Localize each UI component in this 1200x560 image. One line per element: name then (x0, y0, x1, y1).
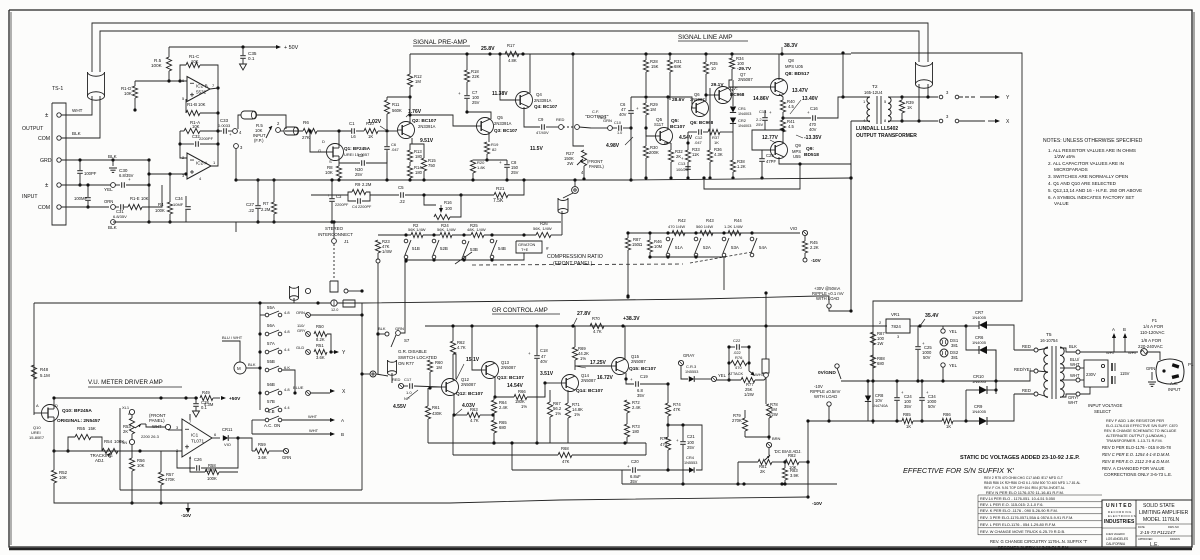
svg-text:RED: RED (1022, 344, 1031, 349)
svg-text:29.1V: 29.1V (711, 82, 724, 88)
svg-text:3.6K: 3.6K (258, 455, 267, 460)
resistor R69 (572, 347, 577, 360)
svg-text:4. Q1 AND Q10 ARE SELECTED: 4. Q1 AND Q10 ARE SELECTED (1048, 181, 1117, 186)
cap C30 (115, 184, 120, 186)
svg-text:1.0: 1.0 (406, 390, 412, 395)
svg-text:4.5: 4.5 (788, 124, 794, 129)
svg-text:BLK: BLK (378, 326, 386, 331)
svg-text:1N4003: 1N4003 (738, 124, 751, 128)
svg-text:6. A SYMBOL INDICATES FACTOR: 6. A SYMBOL INDICATES FACTORY SET (1048, 195, 1134, 200)
svg-text:1.8K: 1.8K (477, 165, 486, 170)
svg-text:3.51V: 3.51V (540, 371, 554, 377)
svg-text:REV 2 R75 470 OHM CHG C17: REV 2 R75 470 OHM CHG C17 AND /E17 MFD G… (984, 476, 1063, 480)
resistor R18 (464, 70, 469, 82)
svg-text:R58: R58 (208, 463, 216, 468)
svg-text:R17: R17 (507, 43, 515, 48)
svg-text:1N5553: 1N5553 (684, 461, 697, 465)
svg-text:1K: 1K (907, 105, 912, 110)
wire R23 down (377, 253, 379, 374)
cap C6 (628, 110, 634, 112)
svg-text:CR4: CR4 (686, 455, 695, 460)
svg-text:1N4005: 1N4005 (972, 379, 987, 384)
svg-text:27.8V: 27.8V (577, 311, 591, 317)
svg-text:Q8: BD517: Q8: BD517 (785, 71, 810, 77)
switch S1B (404, 233, 407, 236)
wire V10 (752, 232, 800, 234)
svg-text:DWG NO: DWG NO (1168, 525, 1179, 529)
svg-text:+: + (229, 132, 232, 137)
svg-text:U N I T E D: U N I T E D (1106, 503, 1132, 509)
svg-text:1.0: 1.0 (617, 131, 622, 135)
release pot R78 (762, 359, 769, 373)
svg-text:C26: C26 (194, 457, 202, 462)
svg-text:U55: U55 (793, 154, 801, 159)
svg-text:10: 10 (711, 66, 716, 71)
svg-text:VALUE: VALUE (1054, 201, 1069, 206)
resistor R1-B (186, 98, 187, 100)
resistor R5 100K (166, 57, 171, 71)
svg-text:Q14: BC107: Q14: BC107 (576, 388, 603, 394)
svg-text:REV. K PER ELO -1176 - 090: REV. K PER ELO -1176 - 090 5-26-90 R.F.M… (980, 508, 1058, 513)
svg-text:EFFECTIVE FOR S/N SUFFIX 'K: EFFECTIVE FOR S/N SUFFIX 'K' (903, 466, 1014, 475)
svg-text:MODEL 1176LN: MODEL 1176LN (1143, 517, 1180, 523)
resistor R1-A (184, 128, 200, 133)
svg-text:40V: 40V (619, 112, 627, 117)
svg-text:54B: 54B (498, 246, 506, 251)
svg-text:A: A (1112, 327, 1115, 332)
svg-text:DATE: DATE (1138, 525, 1145, 529)
switch S4A (750, 231, 753, 234)
svg-text:BRN: BRN (772, 436, 781, 441)
svg-text:MICROFARADS: MICROFARADS (1054, 167, 1088, 172)
svg-text:10K: 10K (59, 475, 67, 480)
svg-text:5.B: 5.B (268, 409, 275, 414)
svg-text:(F.P.): (F.P.) (254, 138, 264, 143)
svg-text:WHT: WHT (1128, 350, 1138, 355)
svg-text:R48: R48 (40, 367, 49, 372)
cap C33 (218, 130, 222, 132)
svg-text:10K: 10K (325, 170, 333, 175)
svg-text:R68: R68 (561, 446, 569, 451)
svg-text:GR CONTROL AMP: GR CONTROL AMP (492, 307, 548, 314)
svg-text:16.72V: 16.72V (597, 375, 614, 381)
connector box (343, 300, 355, 307)
resistor R4 (168, 172, 171, 175)
svg-text:12.0: 12.0 (331, 308, 338, 312)
gr rail 38V (425, 325, 887, 327)
resistor R26 (536, 232, 551, 237)
wire +50V rail (169, 46, 276, 48)
svg-text:ATTACK: ATTACK (728, 371, 744, 376)
svg-text:OUTPUT TRANSFORMER: OUTPUT TRANSFORMER (856, 133, 917, 139)
resistor R82 (785, 459, 799, 464)
svg-text:REV. W CHANGE MOVE TRUCK: REV. W CHANGE MOVE TRUCK 6-25-79 R.D.B. (980, 529, 1065, 534)
pad T (331, 300, 337, 306)
svg-text:270K: 270K (732, 418, 742, 423)
cap C12 R37 (698, 129, 700, 135)
svg-text:Q15: BC107: Q15: BC107 (629, 366, 656, 372)
svg-text:APPROVED: APPROVED (1138, 537, 1153, 541)
svg-text:47K: 47K (562, 459, 570, 464)
svg-text:0V/GND: 0V/GND (818, 370, 836, 376)
svg-text:11.5V: 11.5V (530, 146, 543, 152)
resistor R30 200K (643, 146, 648, 158)
wire output terminals (61, 114, 92, 116)
wire gr to sidechain (646, 430, 683, 455)
svg-text:GRN: GRN (395, 326, 404, 331)
svg-text:11K: 11K (692, 152, 699, 157)
svg-text:ORN: ORN (296, 310, 305, 315)
svg-text:C2: C2 (358, 153, 364, 158)
cap C6b (386, 131, 388, 145)
svg-text:GRN: GRN (603, 118, 612, 123)
cap C13 (685, 166, 691, 168)
svg-text:PANEL): PANEL) (149, 418, 165, 423)
svg-text:E L E C T R O N I C S: E L E C T R O N I C S (1108, 514, 1136, 518)
transistor Q7 (715, 87, 732, 104)
transistor Q5b (656, 128, 673, 145)
svg-text:560 1/4W: 560 1/4W (696, 224, 713, 229)
svg-text:P1: P1 (1188, 362, 1194, 367)
svg-text:1. ALL RESISTOR VALUES ARE: 1. ALL RESISTOR VALUES ARE IN OHMS (1048, 148, 1136, 153)
svg-text:6.K: 6.K (284, 365, 290, 370)
cap 100pF (79, 160, 81, 170)
svg-text:4.7K: 4.7K (470, 418, 479, 423)
svg-text:1.2K 1/4W: 1.2K 1/4W (724, 224, 743, 229)
svg-text:B: B (341, 432, 344, 437)
wire rowA feed (626, 295, 629, 298)
svg-text:6.8/35V: 6.8/35V (113, 214, 127, 219)
resistor R7b (271, 202, 276, 214)
svg-text:+: + (769, 110, 772, 115)
svg-text:R86: R86 (943, 412, 951, 417)
svg-text:47PF: 47PF (766, 159, 776, 164)
resistor R57 (160, 451, 162, 472)
svg-text:SOLID STATE: SOLID STATE (1143, 503, 1175, 509)
svg-text:38.3V: 38.3V (784, 43, 798, 49)
svg-text:DRAWN: DRAWN (1170, 537, 1180, 541)
svg-text:4.55V: 4.55V (393, 404, 407, 410)
transistor Q8 (771, 79, 788, 96)
resistor R31 (667, 60, 672, 72)
wire vr1 rail (920, 325, 966, 327)
svg-text:53A: 53A (731, 245, 739, 250)
wire line amp rail (644, 52, 647, 55)
svg-text:2N5087: 2N5087 (461, 382, 476, 387)
svg-text:40V: 40V (809, 127, 817, 132)
svg-text:15K: 15K (88, 426, 96, 431)
resistor R71 (565, 403, 570, 418)
svg-text:10M: 10M (654, 244, 663, 249)
svg-text:R55: R55 (77, 426, 86, 431)
svg-text:Q3: BC107: Q3: BC107 (494, 128, 518, 133)
wire q15 collector (625, 326, 626, 359)
svg-text:GLD: GLD (296, 345, 304, 350)
svg-text:2K: 2K (123, 429, 128, 434)
svg-text:R43: R43 (706, 218, 714, 223)
svg-text:J1: J1 (344, 239, 349, 244)
resistor R87 (625, 238, 630, 250)
plug P1 (1156, 359, 1184, 384)
svg-text:BLK: BLK (1069, 344, 1077, 349)
svg-text:100K: 100K (151, 63, 163, 68)
wire output bus (100, 31, 919, 72)
wire y303 to power (362, 296, 829, 303)
svg-text:11922 VALERIO: 11922 VALERIO (1106, 532, 1125, 536)
svg-text:S7: S7 (404, 338, 410, 343)
svg-text:52A: 52A (703, 245, 711, 250)
transistor Q9 (771, 142, 788, 159)
svg-text:REV. L PER ELO-1176 - 054: REV. L PER ELO-1176 - 054 1-29-80 R.F.M. (980, 522, 1056, 527)
svg-text:110-120VAC: 110-120VAC (1140, 330, 1165, 335)
svg-text:R59: R59 (258, 442, 266, 447)
svg-text:1%: 1% (580, 356, 586, 361)
wire minus10 left (54, 500, 188, 503)
svg-text:STATIC DC VOLTAGES ADDED 23-10: STATIC DC VOLTAGES ADDED 23-10-92 J.E.P. (960, 455, 1080, 461)
terminal ORN (111, 205, 116, 210)
terminal 4 (233, 129, 238, 134)
svg-text:Q1: BF245A: Q1: BF245A (344, 146, 371, 151)
svg-text:REV. 3 PER ELO-1176-0571,55A: REV. 3 PER ELO-1176-0571,55A & 057A 5-9-… (980, 516, 1073, 520)
dashed compression (455, 252, 472, 264)
wire q12 collector (453, 365, 456, 379)
svg-text:1.02V: 1.02V (368, 119, 382, 125)
svg-text:YEL: YEL (949, 363, 958, 368)
svg-text:BD518: BD518 (804, 152, 819, 158)
svg-text:47K: 47K (673, 407, 681, 412)
main long rail y178 (149, 221, 561, 223)
svg-text:3. SWITCHES ARE NORMALLY OP: 3. SWITCHES ARE NORMALLY OPEN (1048, 174, 1128, 179)
svg-text:REV. A CHANGED FOR VALUE: REV. A CHANGED FOR VALUE (1102, 466, 1165, 471)
svg-text:NOTES: UNLESS OTHERWISE SPECIF: NOTES: UNLESS OTHERWISE SPECIFIED (1043, 138, 1143, 144)
svg-text:2200PF: 2200PF (335, 203, 349, 207)
cap 100pF 2 (87, 185, 89, 197)
svg-text:R42: R42 (678, 218, 686, 223)
svg-text:YEL: YEL (949, 329, 958, 334)
svg-text:430K: 430K (432, 411, 442, 416)
wire gr box right (836, 430, 838, 484)
svg-text:R845 R86 1K R2+R86 CHG 6.1 /: R845 R86 1K R2+R86 CHG 6.1 /10M 500 TO 4… (984, 481, 1081, 485)
lamp DS1 (940, 338, 948, 346)
svg-text:55B: 55B (267, 359, 275, 364)
svg-text:56B: 56B (267, 382, 275, 387)
svg-text:C20: C20 (631, 459, 639, 464)
wire y470 (511, 443, 513, 470)
svg-text:GRD: GRD (40, 158, 52, 164)
svg-text:COM: COM (38, 205, 50, 211)
svg-text:1K: 1K (946, 424, 951, 429)
svg-text:RED: RED (1022, 388, 1031, 393)
svg-text:REV F ADD 1.8K RESISTOR PER: REV F ADD 1.8K RESISTOR PER (1106, 419, 1164, 423)
svg-text:SELECT: SELECT (1094, 409, 1111, 414)
svg-text:GRN: GRN (1146, 366, 1155, 371)
svg-text:.22: .22 (399, 199, 405, 204)
svg-text:5. Q12,13,14 AND 16 - H.F.E. 2: 5. Q12,13,14 AND 16 - H.F.E. 250 OR ABOV… (1048, 188, 1142, 193)
svg-text:2W: 2W (567, 161, 573, 166)
svg-text:C5: C5 (398, 185, 404, 190)
svg-text:C.R.3: C.R.3 (686, 364, 697, 369)
resistor R29 (643, 103, 648, 115)
svg-text:R44: R44 (734, 218, 742, 223)
svg-text:2N3391A: 2N3391A (534, 98, 552, 103)
svg-text:680: 680 (877, 361, 885, 366)
svg-text:A.C. ON: A.C. ON (264, 423, 280, 428)
svg-text:+: + (636, 106, 639, 111)
resistor R42 (672, 230, 685, 235)
cap C5 (374, 194, 399, 196)
pot R77 (717, 379, 741, 381)
svg-text:R49: R49 (202, 390, 210, 395)
resistor R60 (427, 360, 432, 372)
svg-text:REV D PER ELO-1176 - 015: REV D PER ELO-1176 - 015 8-25-78 (1102, 445, 1171, 450)
svg-text:R50: R50 (316, 324, 324, 329)
svg-text:R21: R21 (496, 186, 505, 191)
svg-text:S117: S117 (654, 122, 664, 127)
wire +48V bus top (92, 23, 928, 72)
svg-text:8.2K: 8.2K (316, 337, 325, 342)
cap C14 (762, 117, 768, 119)
svg-text:Q5: Q5 (497, 115, 503, 120)
wire t2 primary feed (783, 117, 811, 119)
svg-text:100MF: 100MF (74, 196, 87, 201)
svg-text:LUNDALL LL5402: LUNDALL LL5402 (856, 126, 898, 132)
switch S3A (722, 231, 725, 234)
resistor R1-D (132, 86, 137, 98)
svg-text:100K: 100K (207, 476, 217, 481)
svg-text:-13.35V: -13.35V (804, 135, 822, 141)
svg-text:CR11: CR11 (222, 427, 233, 432)
svg-text:BLU / WHT: BLU / WHT (222, 335, 243, 340)
resistor R1-E (124, 206, 128, 208)
svg-text:35.4V: 35.4V (925, 313, 939, 319)
svg-text:10K: 10K (137, 463, 145, 468)
switch S4B (490, 233, 493, 236)
svg-text:Q5:: Q5: (671, 118, 679, 124)
svg-text:R85: R85 (903, 412, 911, 417)
svg-text:CORRECTIONS ONLY 3-6-73 L: CORRECTIONS ONLY 3-6-73 L.E. (1104, 472, 1172, 477)
svg-text:R76: R76 (735, 355, 743, 360)
svg-text:470: 470 (660, 442, 668, 447)
svg-text:470: 470 (735, 365, 742, 370)
resistor R74 (667, 384, 669, 403)
meter circle M (234, 362, 246, 374)
wire preamp rail (236, 179, 631, 181)
svg-text:100: 100 (445, 206, 453, 211)
svg-text:WITH LOAD: WITH LOAD (814, 394, 837, 399)
svg-text:T+E: T+E (521, 247, 529, 252)
svg-text:51A: 51A (675, 245, 683, 250)
resistor R45 (804, 236, 806, 241)
svg-text:57B: 57B (267, 399, 275, 404)
svg-text:IC2-A: IC2-A (196, 161, 209, 166)
svg-text:15.1V: 15.1V (466, 357, 480, 363)
svg-text:Q12: BC107: Q12: BC107 (456, 391, 483, 397)
svg-text:R1-E: R1-E (130, 196, 140, 201)
svg-text:C10: C10 (614, 121, 621, 125)
wire cr4 up (668, 425, 702, 470)
resistor R41 (780, 120, 785, 132)
svg-text:4.98V: 4.98V (606, 143, 620, 149)
svg-text:0.1: 0.1 (248, 56, 255, 61)
svg-text:YEL: YEL (104, 187, 113, 192)
transistor Q6 (692, 100, 709, 117)
svg-text:2.4K: 2.4K (632, 405, 641, 410)
svg-text:2N5087: 2N5087 (631, 359, 646, 364)
resistor R13 (407, 150, 412, 162)
svg-text:WHT: WHT (1068, 400, 1078, 405)
svg-text:A.C.: A.C. (1170, 381, 1178, 386)
svg-text:4.8: 4.8 (284, 387, 290, 392)
transistor Q4 (516, 92, 533, 109)
resistor R54 pot (102, 448, 118, 453)
wire q5b collector (667, 97, 669, 129)
wire input com (61, 206, 109, 208)
svg-text:RED: RED (556, 117, 565, 122)
svg-text:Q4: BC107: Q4: BC107 (534, 104, 558, 109)
svg-text:15K: 15K (651, 64, 659, 69)
resistor R59 (252, 450, 255, 452)
svg-text:68K: 68K (674, 64, 682, 69)
svg-text:RED: RED (392, 377, 401, 382)
resistor R21 (461, 194, 494, 196)
terminal 3 (234, 144, 239, 149)
cap C27 (234, 178, 237, 181)
svg-text:R75: R75 (660, 436, 668, 441)
svg-text:ALTERNATE OUTPUT (LUNDAHL): ALTERNATE OUTPUT (LUNDAHL) (1106, 434, 1166, 438)
svg-text:56A: 56A (267, 323, 275, 328)
resistor R63 (454, 414, 467, 416)
svg-text:ORN: ORN (104, 199, 113, 204)
transistor Q10 fet (42, 405, 59, 422)
terminal 2 (276, 128, 281, 133)
svg-text:40V: 40V (540, 359, 548, 364)
svg-text:C29: C29 (766, 153, 774, 158)
svg-text:VIO: VIO (790, 226, 798, 231)
svg-text:2.4K: 2.4K (499, 405, 508, 410)
svg-text:180: 180 (415, 154, 423, 159)
wire y97 collector line (631, 97, 692, 108)
svg-text:+50V: +50V (229, 396, 241, 402)
svg-text:G.R. DISABLE: G.R. DISABLE (398, 349, 427, 354)
wire bus bottom (113, 221, 236, 223)
svg-text:1%: 1% (555, 411, 561, 416)
resistor R2 series (411, 232, 423, 237)
switch S3B (462, 233, 465, 236)
svg-text:1.2K: 1.2K (737, 164, 746, 169)
resistor R6 (303, 128, 317, 133)
svg-text:+: + (128, 177, 131, 182)
svg-text:INTERCONNECT: INTERCONNECT (318, 232, 353, 237)
resistor R24 series (440, 232, 452, 237)
resistor R23 (375, 240, 380, 253)
svg-text:680: 680 (499, 425, 507, 430)
switch S1A (666, 231, 669, 234)
svg-text:4.7K: 4.7K (593, 329, 602, 334)
svg-text:C34: C34 (175, 196, 183, 201)
svg-text:1K: 1K (714, 140, 719, 145)
svg-text:WHT: WHT (72, 108, 83, 113)
svg-text:2.2K: 2.2K (810, 245, 819, 250)
svg-text:7.5K: 7.5K (493, 198, 504, 204)
wire q5 to c9 (524, 107, 540, 127)
svg-text:Q4: Q4 (536, 92, 542, 97)
svg-text:56K, 1/4W: 56K, 1/4W (533, 226, 552, 231)
svg-text:381: 381 (951, 343, 959, 348)
shield cyl 2 (284, 127, 298, 135)
svg-text:4.8: 4.8 (284, 329, 290, 334)
svg-text:1/2W: 1/2W (744, 392, 754, 397)
svg-text:750: 750 (428, 163, 436, 168)
